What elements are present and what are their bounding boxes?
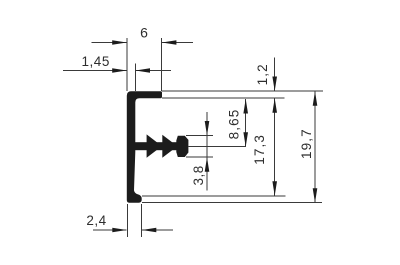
dim line 6 [92, 42, 127, 44]
svg-text:1,2: 1,2 [255, 63, 270, 85]
dim line 19,7 vertical [314, 91, 316, 203]
ext head top y=135.5 [186, 135, 213, 137]
dim line 1,2 vertical x=274.7 [274, 58, 276, 92]
arrow 17,3 bottom (down) [272, 181, 277, 196]
ext top surface y=91.2 [162, 90, 323, 92]
svg-text:8,65: 8,65 [226, 109, 241, 140]
arrow 6 left [112, 40, 127, 45]
arrow 8,65 bottom (down) [243, 132, 248, 147]
svg-text:19,7: 19,7 [299, 128, 314, 159]
arrow 3,8 bottom (up, from below) [205, 157, 210, 172]
arrow 6 right [162, 40, 177, 45]
ext head bottom y=157.2 [186, 156, 213, 158]
ext line x=135.3 top [134, 64, 136, 92]
arrow 8,65 top (up) [243, 99, 248, 114]
ext arm bottom y=98.2 [162, 97, 285, 99]
ext line x=161.7 top [161, 38, 163, 91]
arrow 17,3 top (up) [272, 98, 277, 113]
dim line 17,3 vertical [274, 98, 276, 196]
arrow 2,4 right [142, 228, 157, 233]
arrow 19,7 bottom (down) [313, 188, 318, 203]
barb stem [135, 142, 178, 150]
arrow 2,4 left [112, 228, 127, 233]
svg-text:6: 6 [140, 24, 148, 40]
barb triangle 2 [162, 135, 177, 158]
profile body (C-channel with barbed stem) [127, 91, 162, 203]
dim line 2,4 [93, 229, 127, 231]
arrow 3,8 top (down, from above) [205, 121, 210, 136]
ext profile bottom y=202.7 [142, 202, 322, 204]
barb head [176, 136, 188, 157]
ext stem center y=146.7 [189, 146, 247, 148]
ext foot top y=195.8 [142, 195, 286, 197]
svg-text:1,45: 1,45 [82, 54, 110, 69]
svg-text:2,4: 2,4 [86, 213, 106, 228]
ext line x=126.8 top [126, 38, 128, 91]
svg-text:17,3: 17,3 [252, 134, 267, 165]
ext line x=127.3 bottom [126, 204, 128, 237]
arrow 1,2 down [272, 77, 277, 92]
dim line 3,8 vertical [206, 112, 208, 191]
dim line 8,65 vertical [245, 99, 247, 147]
dim line 1,45 [63, 70, 127, 72]
arrow 1,45 right [136, 68, 151, 73]
barb triangle 1 [147, 134, 162, 157]
arrow 1,45 left [112, 68, 127, 73]
ext line x=141.7 bottom [141, 204, 143, 237]
svg-text:3,8: 3,8 [191, 165, 206, 185]
arrow 19,7 top (up) [313, 91, 318, 106]
